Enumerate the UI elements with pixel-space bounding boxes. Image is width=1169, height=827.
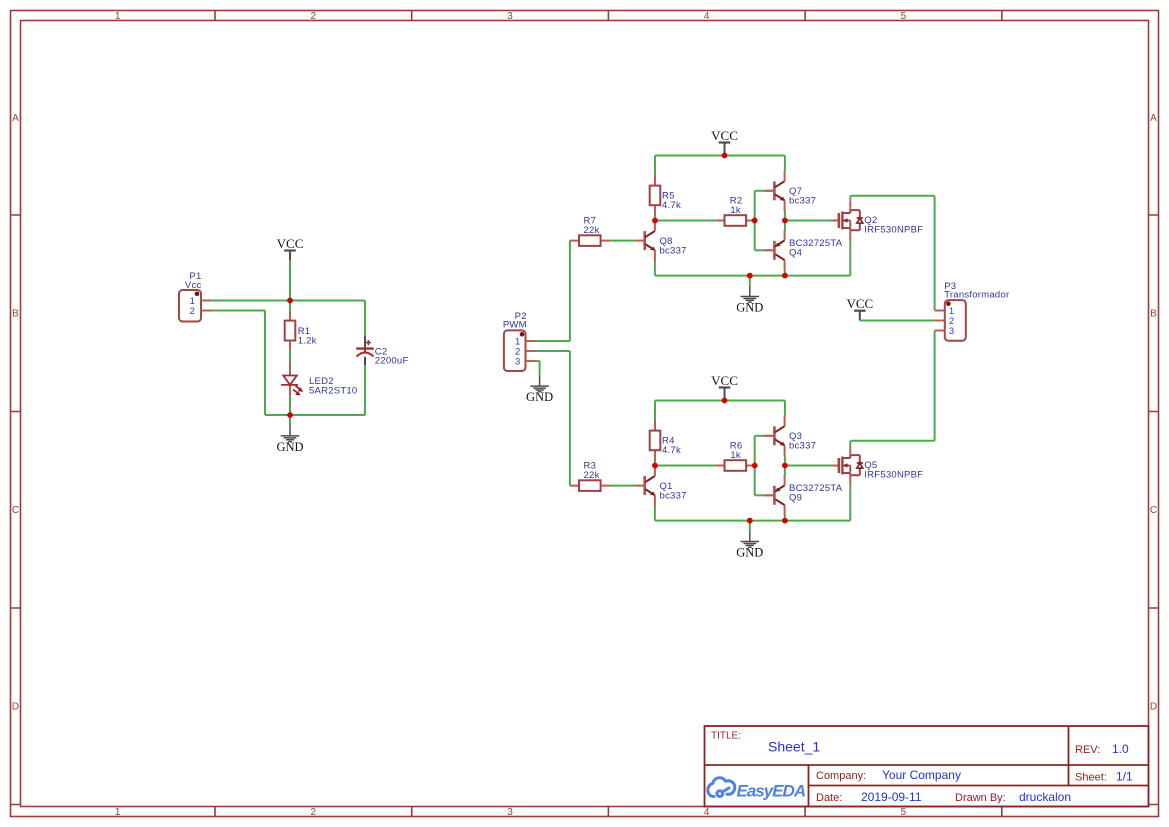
svg-text:bc337: bc337 <box>789 440 816 451</box>
svg-text:D: D <box>1150 702 1157 713</box>
svg-text:2: 2 <box>190 306 195 317</box>
svg-text:5: 5 <box>901 807 907 818</box>
svg-text:Sheet:: Sheet: <box>1075 772 1107 784</box>
svg-text:B: B <box>1150 309 1157 320</box>
svg-text:1k: 1k <box>730 450 741 461</box>
svg-text:Your Company: Your Company <box>882 768 961 782</box>
svg-text:IRF530NPBF: IRF530NPBF <box>864 470 923 481</box>
svg-text:A: A <box>12 113 19 124</box>
svg-text:5AR2ST10: 5AR2ST10 <box>309 385 357 396</box>
svg-text:D: D <box>12 702 19 713</box>
svg-text:C: C <box>12 505 19 516</box>
svg-text:Q4: Q4 <box>789 248 802 259</box>
svg-text:4: 4 <box>704 11 710 22</box>
svg-text:1: 1 <box>115 11 121 22</box>
svg-text:Sheet_1: Sheet_1 <box>768 739 820 755</box>
svg-text:1.0: 1.0 <box>1112 742 1129 756</box>
svg-text:1.2k: 1.2k <box>298 335 317 346</box>
svg-text:C: C <box>1150 505 1157 516</box>
svg-text:A: A <box>1150 113 1157 124</box>
svg-text:4.7k: 4.7k <box>662 445 681 456</box>
svg-text:Drawn By:: Drawn By: <box>955 792 1006 804</box>
svg-text:3: 3 <box>507 11 513 22</box>
svg-text:B: B <box>12 309 19 320</box>
svg-text:22k: 22k <box>584 225 600 236</box>
svg-text:5: 5 <box>901 11 907 22</box>
svg-text:Q9: Q9 <box>789 493 802 504</box>
svg-text:3: 3 <box>949 326 954 337</box>
svg-text:PWM: PWM <box>503 320 527 331</box>
svg-text:3: 3 <box>507 807 513 818</box>
svg-text:2: 2 <box>311 11 317 22</box>
svg-text:Vcc: Vcc <box>185 280 202 291</box>
svg-text:3: 3 <box>515 357 520 368</box>
svg-text:4.7k: 4.7k <box>662 200 681 211</box>
svg-text:Company:: Company: <box>816 770 866 782</box>
svg-text:druckalon: druckalon <box>1019 790 1071 804</box>
svg-text:bc337: bc337 <box>660 246 687 257</box>
svg-text:22k: 22k <box>584 470 600 481</box>
svg-text:2019-09-11: 2019-09-11 <box>861 790 922 804</box>
svg-text:1k: 1k <box>730 205 741 216</box>
svg-text:bc337: bc337 <box>789 195 816 206</box>
svg-text:2: 2 <box>311 807 317 818</box>
svg-text:4: 4 <box>704 807 710 818</box>
svg-text:IRF530NPBF: IRF530NPBF <box>864 225 923 236</box>
svg-text:EasyEDA: EasyEDA <box>737 782 806 801</box>
svg-text:TITLE:: TITLE: <box>711 731 741 742</box>
svg-text:REV:: REV: <box>1075 744 1100 756</box>
svg-text:2200uF: 2200uF <box>375 355 409 366</box>
svg-text:bc337: bc337 <box>660 491 687 502</box>
svg-text:Transformador: Transformador <box>944 290 1009 301</box>
svg-text:Date:: Date: <box>816 792 842 804</box>
svg-text:1: 1 <box>115 807 121 818</box>
svg-text:1/1: 1/1 <box>1116 770 1133 784</box>
